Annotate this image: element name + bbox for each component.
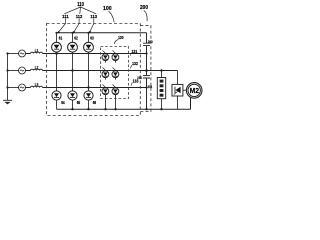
svg-text:L2: L2 <box>35 64 39 69</box>
wire brake leads <box>178 71 187 110</box>
node dot bus2 col2 <box>71 69 73 71</box>
wire source1 left lead <box>8 53 19 55</box>
thyristor 65 bottom <box>68 91 77 100</box>
switch cell row1 right <box>112 54 119 61</box>
brake chopper box <box>172 84 183 96</box>
svg-text:65: 65 <box>77 100 81 105</box>
wire row2 stubs <box>105 78 115 80</box>
svg-text:62: 62 <box>74 36 78 41</box>
svg-text:132: 132 <box>132 61 138 66</box>
svg-text:204: 204 <box>148 84 153 89</box>
node dot source2 <box>6 69 8 71</box>
node dot source1 <box>6 52 8 54</box>
svg-text:64: 64 <box>61 100 65 105</box>
node dot rail-b load <box>160 108 162 110</box>
svg-text:112: 112 <box>76 14 83 20</box>
thyristor 62 top <box>68 42 78 52</box>
svg-text:202: 202 <box>137 75 142 80</box>
wire dc- bottom rail <box>57 97 191 109</box>
node dot rail-b col2 <box>71 108 73 110</box>
arrow 112 <box>74 19 79 32</box>
svg-text:100: 100 <box>103 6 112 12</box>
wire row1 stubs <box>105 61 115 63</box>
svg-text:111: 111 <box>62 14 69 20</box>
leader 133 <box>131 83 132 86</box>
wire source3 left lead <box>8 87 19 89</box>
svg-text:113: 113 <box>90 14 97 20</box>
wire load box leads <box>161 71 163 110</box>
inductor L3 <box>31 86 43 87</box>
node dot link bus1 <box>145 52 147 54</box>
leader 131 <box>130 53 131 56</box>
motor M2 <box>186 83 202 99</box>
thyristor 61 top <box>52 42 62 52</box>
thyristor 63 top <box>84 42 94 52</box>
node dot bus1 col1 <box>55 52 57 54</box>
thyristor 66 bottom <box>84 91 93 100</box>
wire row3 drops <box>106 95 116 110</box>
wire bus1 <box>26 53 147 55</box>
label 110 fan lines <box>64 7 96 14</box>
leader 100 <box>109 11 115 22</box>
svg-text:200: 200 <box>140 5 148 11</box>
switch cell row3 left <box>102 88 109 95</box>
svg-text:63: 63 <box>90 36 94 41</box>
svg-text:203: 203 <box>148 39 154 44</box>
switch cell row1 left <box>102 54 109 61</box>
node dot bus3 col3 <box>87 86 89 88</box>
wire left vertical bus <box>7 54 9 101</box>
dc-link box 200 dashed <box>140 26 151 112</box>
node dot source3 <box>6 86 8 88</box>
ground <box>3 99 12 101</box>
capacitor C1 <box>143 43 150 45</box>
wire dc+ top rail <box>57 32 147 34</box>
node dot rail col2 <box>71 32 73 34</box>
wire column1 vertical <box>56 33 58 109</box>
wire column2 vertical <box>72 33 74 109</box>
converter box 100 dashed <box>47 24 141 116</box>
node dot rail-b invL <box>104 108 106 110</box>
inductor L1 <box>31 52 43 53</box>
leader 200 <box>144 11 147 22</box>
switch cell row3 right <box>112 88 119 95</box>
leader 130 <box>114 40 118 45</box>
svg-text:110: 110 <box>77 2 84 8</box>
inductor L2 <box>31 69 43 70</box>
inverter box 130 dashed <box>101 47 129 99</box>
svg-text:M2: M2 <box>190 88 199 95</box>
AC source V2 <box>19 67 26 74</box>
node dot load tap <box>160 69 162 71</box>
wire column3 vertical <box>88 33 90 109</box>
switch cell row2 right <box>112 71 119 78</box>
wire source2 left lead <box>8 70 19 72</box>
svg-text:131: 131 <box>132 49 138 54</box>
node dot rail-b dclink <box>145 108 147 110</box>
wire bus3 <box>26 87 147 89</box>
arrow 111 <box>59 19 66 33</box>
AC source V3 <box>19 84 26 91</box>
svg-text:130: 130 <box>118 35 124 40</box>
dc link vertical wire <box>146 33 148 109</box>
capacitor C2 <box>143 76 150 78</box>
svg-text:61: 61 <box>59 36 63 41</box>
node dot rail-b invR <box>114 108 116 110</box>
AC source V1 <box>19 50 26 57</box>
node dot rail-b col3 <box>87 108 89 110</box>
thyristor 64 bottom <box>52 91 61 100</box>
node dot rail col1 <box>55 32 57 34</box>
node dot link bus3 <box>145 86 147 88</box>
node dot rail col3 <box>87 32 89 34</box>
svg-text:66: 66 <box>93 100 97 105</box>
svg-text:L3: L3 <box>35 81 39 86</box>
leader 132 <box>131 65 132 68</box>
wire bus2 (continues right to load line) <box>26 70 178 72</box>
node dot link bus2 <box>145 69 148 72</box>
arrow 113 <box>90 19 94 32</box>
svg-text:L1: L1 <box>35 47 39 52</box>
load box <box>157 78 165 99</box>
switch cell row2 left <box>102 71 109 78</box>
